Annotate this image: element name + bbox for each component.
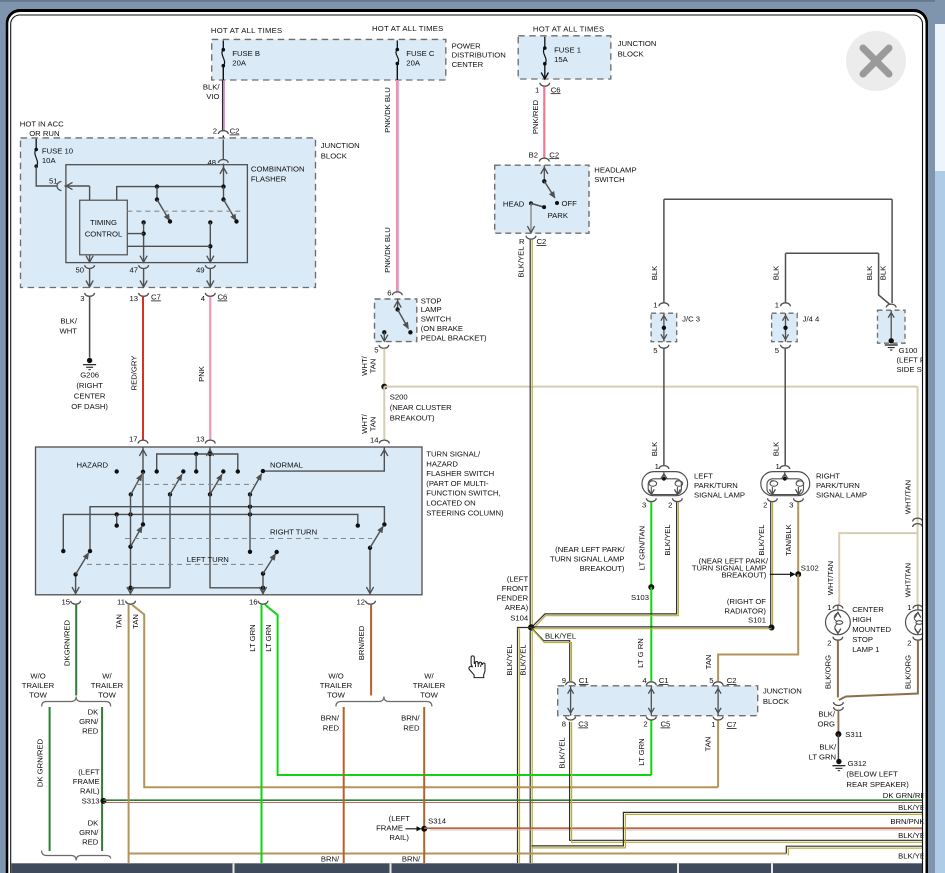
- wire WHT/TAN (branch to center lamp): [839, 533, 917, 604]
- svg-text:SIGNAL LAMP: SIGNAL LAMP: [816, 491, 867, 500]
- svg-text:TAN/BLK: TAN/BLK: [784, 523, 793, 555]
- svg-text:C7: C7: [727, 720, 737, 729]
- svg-text:BLK/YE: BLK/YE: [898, 831, 925, 840]
- svg-text:5: 5: [374, 346, 378, 355]
- svg-text:BLOCK: BLOCK: [321, 152, 348, 161]
- label BRN/PNK (right edge): [890, 817, 925, 826]
- svg-text:GRN/: GRN/: [79, 717, 99, 726]
- svg-text:C1: C1: [579, 676, 589, 685]
- inline connector (WHT/TAN): [913, 518, 923, 527]
- svg-text:BLK/YE: BLK/YE: [898, 803, 925, 812]
- svg-text:DK GRN/RE: DK GRN/RE: [883, 791, 926, 800]
- label STOP LAMP SWITCH (ON BRAKE PEDAL BRACKET): [421, 297, 487, 343]
- svg-text:FLASHER SWITCH: FLASHER SWITCH: [426, 469, 494, 478]
- svg-text:ORG: ORG: [817, 720, 835, 729]
- svg-text:BLOCK: BLOCK: [618, 50, 645, 59]
- wire LT GRN (S103 to 4C1): [650, 587, 652, 681]
- svg-text:PNK/RED: PNK/RED: [531, 99, 540, 134]
- wire PNK (C6 to pin 13): [209, 297, 211, 439]
- svg-text:REAR SPEAKER): REAR SPEAKER): [846, 780, 909, 789]
- splice S200: [381, 384, 387, 390]
- fuse 1 exit arrow: [541, 64, 548, 79]
- svg-text:BLK/YEL: BLK/YEL: [518, 644, 527, 676]
- label BLK/YE (bus 4 label): [898, 851, 925, 860]
- wire BRN/RED (right branch): [423, 707, 425, 863]
- wire LT GRN (pin 16 right, to bus): [265, 605, 651, 775]
- wire BRN/RED (left branch): [343, 707, 345, 863]
- svg-text:G206: G206: [80, 371, 99, 380]
- pin 16 exit: [259, 571, 266, 594]
- label BRN/RED (pin12): [357, 625, 366, 660]
- wire BLK/YEL (bottom right staircase): [786, 846, 923, 855]
- svg-text:RED: RED: [403, 724, 420, 733]
- wire RED/GRY (C7 to pin 17): [142, 297, 144, 439]
- label R C2: [519, 237, 546, 246]
- svg-text:TURN SIGNAL LAMP: TURN SIGNAL LAMP: [550, 555, 624, 564]
- hazard stub: [115, 512, 119, 528]
- svg-text:RAIL): RAIL): [389, 833, 409, 842]
- svg-text:BLK/YEL: BLK/YEL: [517, 246, 526, 278]
- svg-text:C7: C7: [151, 293, 161, 302]
- svg-text:20A: 20A: [406, 59, 421, 68]
- svg-text:3: 3: [642, 501, 646, 510]
- bus H3: [88, 505, 387, 554]
- svg-text:TAN: TAN: [704, 655, 713, 670]
- wire BLK (J/4 ground bus): [786, 253, 891, 304]
- svg-text:TRAILER: TRAILER: [22, 681, 55, 690]
- svg-text:GRN/: GRN/: [79, 828, 99, 837]
- connector 2 (left lamp): [668, 498, 682, 509]
- svg-text:17: 17: [129, 435, 138, 444]
- svg-text:BRN/: BRN/: [321, 714, 340, 723]
- wire 47 to JB edge: [140, 269, 147, 288]
- dashed link (hazard-normal): [136, 483, 254, 485]
- svg-text:DK: DK: [88, 708, 100, 717]
- svg-text:HOT AT ALL TIMES: HOT AT ALL TIMES: [533, 25, 605, 34]
- label J/C 3: [682, 315, 700, 324]
- svg-text:BLK: BLK: [772, 441, 781, 456]
- J/4 4 internal: [783, 313, 789, 342]
- label BLK/VIO: [203, 83, 221, 102]
- wire BLK (J/C3 ground bus): [664, 199, 892, 303]
- wire BLK/YEL (S104 to 9C1): [531, 628, 571, 682]
- svg-text:3: 3: [789, 501, 793, 510]
- junction connector J/4 4 box: [772, 313, 798, 342]
- svg-text:BLK/YEL: BLK/YEL: [505, 644, 514, 676]
- label BLK/YEL (left lamp): [663, 524, 672, 556]
- brace (pin 15 split): [42, 697, 111, 707]
- pin 15 exit: [72, 572, 79, 595]
- svg-text:BRN/: BRN/: [401, 714, 420, 723]
- flasher bus wire: [117, 187, 224, 201]
- arrow 49 exit: [207, 256, 214, 263]
- svg-text:S104: S104: [510, 614, 529, 623]
- V17 lower segment: [141, 472, 145, 527]
- bus H4: [61, 512, 360, 553]
- label BRN/ (cut label 2): [402, 855, 421, 864]
- svg-text:DKGRN/RED: DKGRN/RED: [62, 619, 71, 666]
- svg-text:RIGHT: RIGHT: [816, 472, 840, 481]
- wire DK GRN/RED bus (S313 to right edge): [103, 800, 923, 802]
- wire PNK (to pin 13 connector): [209, 439, 211, 440]
- svg-text:OF DASH): OF DASH): [71, 402, 108, 411]
- svg-text:13: 13: [129, 294, 138, 303]
- label BRN/ (cut label 1): [321, 855, 340, 864]
- label LEFT TURN: [187, 555, 229, 564]
- label BLK/YEL (S104 down 1): [505, 644, 514, 676]
- label 1 C6: [535, 85, 561, 94]
- wire DK GRN/RED (left branch): [49, 707, 51, 851]
- svg-text:BLK/: BLK/: [819, 743, 837, 752]
- connector 5 C2: [709, 676, 736, 685]
- label LT GRN/TAN: [637, 526, 646, 570]
- label BLK (g100 left): [865, 265, 874, 280]
- connector 1 (right park/turn lamp): [776, 462, 790, 471]
- svg-text:S200: S200: [390, 393, 408, 402]
- svg-text:LEFT TURN: LEFT TURN: [187, 555, 229, 564]
- label LEFT PARK/TURN SIGNAL LAMP: [694, 472, 745, 500]
- svg-text:16: 16: [249, 598, 258, 607]
- svg-text:PNK/DK BLU: PNK/DK BLU: [383, 87, 392, 133]
- label BLK/YE (bus 2 label): [898, 803, 925, 812]
- label DK GRN/RED (left branch): [35, 738, 44, 787]
- flasher contact 49: [208, 220, 212, 262]
- svg-text:BLK: BLK: [650, 441, 659, 456]
- svg-text:TIMING: TIMING: [90, 218, 117, 227]
- wire BLK/ORG (right lamp down + join): [839, 641, 918, 700]
- wire BLK (J/44 to right lamp): [784, 349, 786, 465]
- wire LT GRN (pin 16 left): [261, 605, 263, 863]
- label BLK (left lamp feed): [650, 441, 659, 456]
- connector 49: [196, 265, 215, 274]
- svg-text:(LEFT: (LEFT: [78, 768, 100, 777]
- svg-text:DISTRIBUTION: DISTRIBUTION: [452, 51, 506, 60]
- svg-text:FUSE 10: FUSE 10: [42, 147, 73, 156]
- wire LT GRN (2C5 down): [650, 720, 652, 776]
- connector 11: [117, 598, 135, 607]
- arrow to S314: [406, 826, 422, 831]
- svg-text:C6: C6: [551, 85, 561, 94]
- svg-text:(PART OF MULTI-: (PART OF MULTI-: [426, 479, 489, 488]
- svg-text:20A: 20A: [232, 59, 247, 68]
- svg-text:BLK/YEL: BLK/YEL: [557, 737, 566, 769]
- switch blade G: [370, 527, 383, 548]
- svg-text:TAN: TAN: [703, 737, 712, 752]
- svg-text:TAN: TAN: [368, 417, 377, 432]
- label B2 C2: [529, 150, 560, 159]
- dashed link (left turn): [87, 563, 265, 565]
- connector 9 C1: [562, 676, 589, 685]
- label HOT AT ALL TIMES (fuse C): [372, 24, 444, 33]
- svg-text:LT GRN/TAN: LT GRN/TAN: [637, 526, 646, 570]
- connector 1 (J/4 4): [775, 301, 791, 310]
- svg-text:FUSE 1: FUSE 1: [554, 46, 581, 55]
- wire BLK/LT GRN (S311 to G312): [837, 734, 839, 759]
- label WHT/TAN (mid right 2): [903, 563, 912, 597]
- label W/ TRAILER TOW (left): [91, 672, 124, 700]
- label BRN/RED (left branch): [321, 714, 340, 733]
- hazard contact dot: [115, 469, 119, 473]
- svg-text:HOT AT ALL TIMES: HOT AT ALL TIMES: [211, 26, 283, 35]
- node on bus (switch 2): [221, 184, 225, 188]
- connector C6 (fuse 1 out): [540, 83, 550, 86]
- svg-text:47: 47: [129, 266, 138, 275]
- svg-text:HOT IN ACC: HOT IN ACC: [20, 120, 64, 129]
- wire BLK/VIO (fuse B to C2): [223, 66, 225, 132]
- label TAN (pin11 b): [131, 614, 140, 629]
- flasher contact 47: [141, 220, 145, 262]
- label BLK/ORG (below connector): [817, 710, 835, 729]
- svg-text:11: 11: [117, 598, 125, 607]
- svg-text:15A: 15A: [554, 55, 569, 64]
- svg-text:BLK: BLK: [772, 265, 781, 280]
- svg-text:WHT/TAN: WHT/TAN: [826, 561, 835, 595]
- label PNK/DK BLU (upper): [383, 87, 392, 133]
- svg-text:(RIGHT: (RIGHT: [76, 381, 103, 390]
- svg-text:RADIATOR): RADIATOR): [724, 607, 766, 616]
- stop lamp switch contact in: [394, 299, 401, 312]
- connector 3: [80, 293, 94, 303]
- svg-text:4: 4: [642, 676, 647, 685]
- ground G100 box: [878, 310, 906, 343]
- label BLK/YEL (right lamp): [757, 524, 766, 556]
- svg-text:FRAME: FRAME: [376, 823, 403, 832]
- wire BLK/YEL (S104 straight down): [530, 631, 532, 863]
- label POWER DISTRIBUTION CENTER: [452, 41, 506, 69]
- V-normal lower: [248, 494, 252, 554]
- wire 51-branch down to timing control: [89, 186, 91, 200]
- switch blade C: [208, 475, 222, 497]
- junction block box (bottom): [558, 686, 758, 716]
- fuse 10: [34, 148, 38, 168]
- svg-text:PARK: PARK: [548, 211, 569, 220]
- svg-text:RIGHT TURN: RIGHT TURN: [270, 527, 317, 536]
- svg-text:BLK/: BLK/: [203, 83, 221, 92]
- svg-text:TAN: TAN: [114, 614, 123, 629]
- svg-text:5: 5: [775, 346, 779, 355]
- connector C2 R (headlamp out): [526, 236, 536, 239]
- headlamp switch blade to OFF: [544, 181, 559, 205]
- connector 2 (right lamp): [763, 498, 777, 509]
- connector 13: [196, 435, 215, 444]
- label NEAR LEFT PARK breakout (S103): [550, 545, 625, 573]
- svg-text:1: 1: [655, 462, 659, 471]
- svg-text:C6: C6: [218, 293, 228, 302]
- svg-text:FENDER: FENDER: [497, 594, 529, 603]
- label BLK/ORG (center): [823, 655, 832, 689]
- label BRN/RED (right branch): [401, 714, 420, 733]
- svg-text:BLK: BLK: [865, 265, 874, 280]
- svg-text:HEADLAMP: HEADLAMP: [594, 166, 636, 175]
- wire TAN (pin 11 right, to bus): [132, 605, 718, 788]
- connector 6 (stop lamp switch): [387, 289, 402, 298]
- connector 1 (J/C 3): [653, 301, 669, 310]
- connector 14: [370, 436, 389, 445]
- svg-text:1: 1: [535, 85, 539, 94]
- connector 5 (J/C 3): [653, 345, 669, 355]
- stop lamp switch box: [375, 299, 417, 342]
- connector 16: [249, 598, 268, 607]
- brace (bottom, S313 pair): [42, 851, 111, 861]
- connector 50: [75, 265, 94, 274]
- svg-text:BLK/YEL: BLK/YEL: [663, 524, 672, 556]
- wire LT GRN/TAN (left lamp 3 to S103): [650, 502, 652, 587]
- label FUSE 10 10A: [42, 147, 73, 166]
- connector 17: [129, 435, 148, 444]
- label BLK (j44): [772, 265, 781, 280]
- stop lamp switch blade: [398, 310, 413, 335]
- switch blade D (normal): [248, 474, 262, 497]
- svg-text:LAMP: LAMP: [421, 305, 442, 314]
- headlamp switch contact in: [541, 165, 548, 183]
- svg-text:S102: S102: [801, 564, 819, 573]
- flasher mechanical link (dashed): [127, 210, 244, 212]
- pin 12 exit: [366, 546, 373, 595]
- connector C7: [129, 293, 160, 304]
- wire WHT/TAN (to pin 14 connector): [383, 439, 385, 440]
- svg-text:W/: W/: [102, 672, 112, 681]
- wire 2C2 to junction block: [222, 136, 224, 140]
- svg-text:12: 12: [356, 598, 365, 607]
- label LT GRN (pin16 a): [248, 624, 257, 651]
- svg-text:BLK/: BLK/: [818, 710, 836, 719]
- stop lamp switch out arrow: [381, 330, 388, 342]
- label BLK (g100 right): [878, 265, 887, 280]
- svg-text:TRAILER: TRAILER: [91, 681, 124, 690]
- connector 4 C1: [642, 676, 668, 685]
- label JUNCTION BLOCK (bottom): [763, 687, 802, 707]
- JB pin 4-2 internal: [648, 686, 654, 716]
- wire TAN (bottom bus): [129, 853, 787, 855]
- svg-text:TAN: TAN: [368, 359, 377, 374]
- svg-text:1: 1: [653, 301, 657, 310]
- label FUSE 1 15A: [554, 46, 581, 65]
- wire TAN (S102 to 5C2): [718, 574, 798, 681]
- svg-text:R: R: [519, 237, 525, 246]
- label BLK/YEL (below JB): [557, 737, 566, 769]
- svg-text:W/: W/: [424, 672, 434, 681]
- svg-text:C2: C2: [230, 127, 240, 136]
- connector 1 (left park/turn lamp): [655, 462, 669, 471]
- svg-text:MOUNTED: MOUNTED: [852, 625, 891, 634]
- pin 13 line down to 16: [210, 494, 265, 590]
- switch blade A (hazard): [129, 475, 142, 497]
- svg-text:C2: C2: [549, 150, 559, 159]
- label BLK/YEL (at S104): [545, 632, 577, 641]
- svg-text:BLK/YEL: BLK/YEL: [545, 632, 577, 641]
- splice S314: [421, 817, 447, 832]
- svg-text:50: 50: [75, 266, 84, 275]
- svg-text:BLK/ORG: BLK/ORG: [823, 655, 832, 689]
- node on bus (switch 1): [155, 184, 159, 188]
- label PNK/DK BLU (lower): [383, 227, 392, 273]
- svg-text:TURN SIGNAL/: TURN SIGNAL/: [426, 450, 481, 459]
- svg-text:LT GRN: LT GRN: [264, 624, 273, 651]
- svg-text:LOCATED ON: LOCATED ON: [426, 499, 475, 508]
- svg-text:1: 1: [711, 720, 715, 729]
- svg-text:1: 1: [827, 603, 831, 612]
- label HOT IN ACC OR RUN: [20, 120, 64, 138]
- connector 12: [356, 598, 375, 607]
- svg-text:5: 5: [709, 676, 713, 685]
- wire BLK/YEL (S104 branch left, down): [518, 628, 532, 864]
- label TURN SIGNAL/HAZARD FLASHER SWITCH: [426, 450, 504, 518]
- svg-text:G100: G100: [899, 346, 918, 355]
- wire 48 (C2 to flasher): [222, 140, 224, 161]
- svg-text:C5: C5: [661, 720, 671, 729]
- svg-text:(LEFT: (LEFT: [389, 814, 411, 823]
- svg-text:3: 3: [80, 294, 84, 303]
- fuse C feed stub: [396, 41, 398, 50]
- svg-text:BLOCK: BLOCK: [763, 697, 790, 706]
- switch bus H1: [155, 452, 241, 474]
- svg-text:(RIGHT OF: (RIGHT OF: [727, 597, 766, 606]
- lamp RIGHT PARK/TURN SIGNAL LAMP: [761, 472, 810, 496]
- ground G206: [83, 358, 96, 370]
- svg-text:LEFT: LEFT: [694, 472, 713, 481]
- splice S313: [100, 798, 106, 804]
- label LT GRN (below JB): [637, 738, 646, 765]
- label LEFT FRONT FENDER AREA S104: [497, 575, 529, 623]
- splice S102: [795, 564, 819, 578]
- splice S101: [748, 616, 774, 631]
- connector 3 (right lamp): [789, 498, 803, 509]
- lamp LEFT PARK/TURN SIGNAL LAMP: [642, 472, 688, 496]
- svg-text:C2: C2: [727, 676, 737, 685]
- svg-text:FRAME: FRAME: [73, 777, 100, 786]
- wire WHT/TAN (right edge down): [917, 387, 919, 605]
- wire BRN/RED (pin 12 to brace): [370, 605, 372, 696]
- svg-text:S313: S313: [82, 797, 100, 806]
- timing control out 50: [89, 255, 91, 263]
- bottom toolbar: [11, 863, 922, 873]
- label RIGHT OF RADIATOR: [724, 597, 766, 616]
- dashed link (right turn): [125, 538, 372, 540]
- svg-text:WHT: WHT: [59, 327, 77, 336]
- wire BLK/YEL (right lamp 2 to S101): [771, 502, 773, 627]
- label HOT AT ALL TIMES (fuse B): [211, 26, 283, 35]
- svg-text:S311: S311: [845, 730, 862, 739]
- connector G100 top: [886, 304, 896, 307]
- pin 14 entry: [263, 447, 388, 471]
- lamp CENTER HIGH MOUNTED STOP LAMP 1: [826, 605, 851, 635]
- connector 2 (center stop lamp): [827, 637, 843, 648]
- label J/4 4: [803, 315, 820, 324]
- svg-text:HIGH: HIGH: [852, 615, 871, 624]
- connector 2 (right stop lamp): [907, 637, 923, 648]
- svg-text:STOP: STOP: [852, 635, 873, 644]
- svg-text:2: 2: [668, 501, 672, 510]
- svg-text:RED/GRY: RED/GRY: [130, 356, 139, 391]
- wire PNK/DK BLU (fuse C to stop lamp switch): [397, 64, 399, 293]
- combination flasher box: [66, 165, 248, 263]
- close button: [846, 31, 906, 91]
- label BLK/YEL (S104 down 2): [518, 644, 527, 676]
- label TAN/BLK: [784, 523, 793, 555]
- svg-text:DK GRN/RED: DK GRN/RED: [35, 738, 44, 787]
- label FUSE B 20A: [232, 49, 260, 68]
- label RIGHT TURN: [270, 527, 317, 536]
- label W/O TRAILER TOW (mid): [320, 672, 353, 700]
- svg-text:W/O: W/O: [30, 672, 45, 681]
- svg-text:PNK: PNK: [197, 365, 206, 382]
- timing control out 1: [127, 233, 143, 235]
- svg-text:RAIL): RAIL): [80, 787, 100, 796]
- wire WHT/TAN (stop lamp sw to S200): [383, 349, 385, 387]
- label LT GRN (above JB): [636, 638, 645, 668]
- svg-text:LT GRN: LT GRN: [248, 624, 257, 651]
- svg-text:VIO: VIO: [206, 92, 219, 101]
